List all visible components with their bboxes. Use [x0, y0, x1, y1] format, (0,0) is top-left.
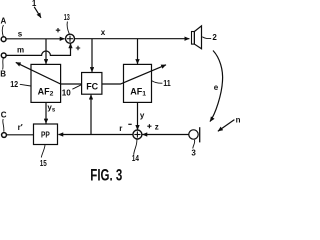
block AF2	[31, 64, 61, 102]
svg-text:FIG. 3: FIG. 3	[90, 165, 122, 184]
minus sign y input	[128, 123, 131, 125]
wire m with hop over AF2 branch	[6, 44, 70, 56]
leader C	[3, 119, 4, 132]
svg-text:C: C	[1, 111, 7, 120]
leader 10	[72, 85, 81, 89]
svg-text:2: 2	[212, 33, 217, 42]
wire x to FC	[91, 39, 93, 72]
svg-text:11: 11	[163, 79, 171, 88]
svg-text:x: x	[101, 28, 106, 37]
svg-text:n: n	[236, 115, 240, 124]
leader 11	[152, 81, 163, 83]
svg-text:1: 1	[32, 0, 37, 8]
summing node 14	[133, 130, 142, 139]
block PP	[34, 124, 58, 145]
leader 3	[193, 140, 195, 149]
svg-text:PP: PP	[41, 130, 50, 139]
svg-text:A: A	[1, 16, 7, 25]
terminal B	[1, 53, 6, 58]
svg-text:12: 12	[10, 80, 18, 89]
wire ys from AF2 to PP	[45, 102, 47, 123]
wire r branch to FC	[90, 95, 92, 135]
terminal A	[1, 37, 6, 42]
leader 2	[202, 37, 211, 39]
echo path e	[210, 51, 223, 122]
svg-text:FC: FC	[86, 82, 98, 92]
wire y from AF1 to adder 14	[137, 102, 139, 129]
leader 12	[20, 84, 31, 86]
svg-text:s: s	[18, 30, 23, 39]
adaptation arrow AF1 from FC	[102, 65, 166, 84]
svg-text:r: r	[119, 124, 122, 133]
adaptation arrow AF2 from FC	[16, 62, 82, 84]
plus sign m input	[76, 46, 80, 50]
leader 14	[134, 139, 137, 155]
svg-text:e: e	[214, 83, 219, 92]
svg-text:r′: r′	[18, 123, 23, 132]
svg-text:m: m	[17, 45, 24, 54]
svg-text:ys: ys	[47, 103, 55, 113]
wire r' from PP to C	[6, 134, 33, 136]
svg-text:13: 13	[64, 13, 70, 22]
arrow m into adder 13	[70, 43, 72, 50]
block FC	[82, 73, 102, 95]
leader A	[2, 25, 3, 37]
wire s branch to AF2	[45, 39, 47, 64]
svg-text:B: B	[0, 69, 6, 78]
microphone 3	[189, 130, 198, 139]
plus sign z input	[147, 124, 151, 128]
svg-text:14: 14	[132, 154, 140, 163]
pointer arrow 1	[34, 7, 41, 18]
noise arrow n	[218, 120, 235, 132]
svg-text:3: 3	[191, 149, 196, 158]
block AF1	[124, 64, 152, 102]
svg-text:15: 15	[40, 159, 47, 168]
summing node 13	[66, 34, 75, 43]
svg-text:z: z	[155, 123, 159, 132]
wire x	[74, 38, 189, 40]
terminal C	[2, 133, 7, 138]
wire r from adder 14 to PP	[58, 134, 133, 136]
svg-text:y: y	[140, 111, 145, 120]
plus sign s input	[56, 28, 60, 32]
wire z	[142, 134, 188, 136]
leader 13	[67, 22, 69, 34]
wire x to AF1	[137, 39, 139, 64]
wire s	[6, 38, 65, 40]
leader B	[2, 58, 5, 70]
svg-text:10: 10	[62, 89, 72, 98]
leader 15	[41, 145, 45, 158]
loudspeaker 2	[192, 32, 195, 45]
